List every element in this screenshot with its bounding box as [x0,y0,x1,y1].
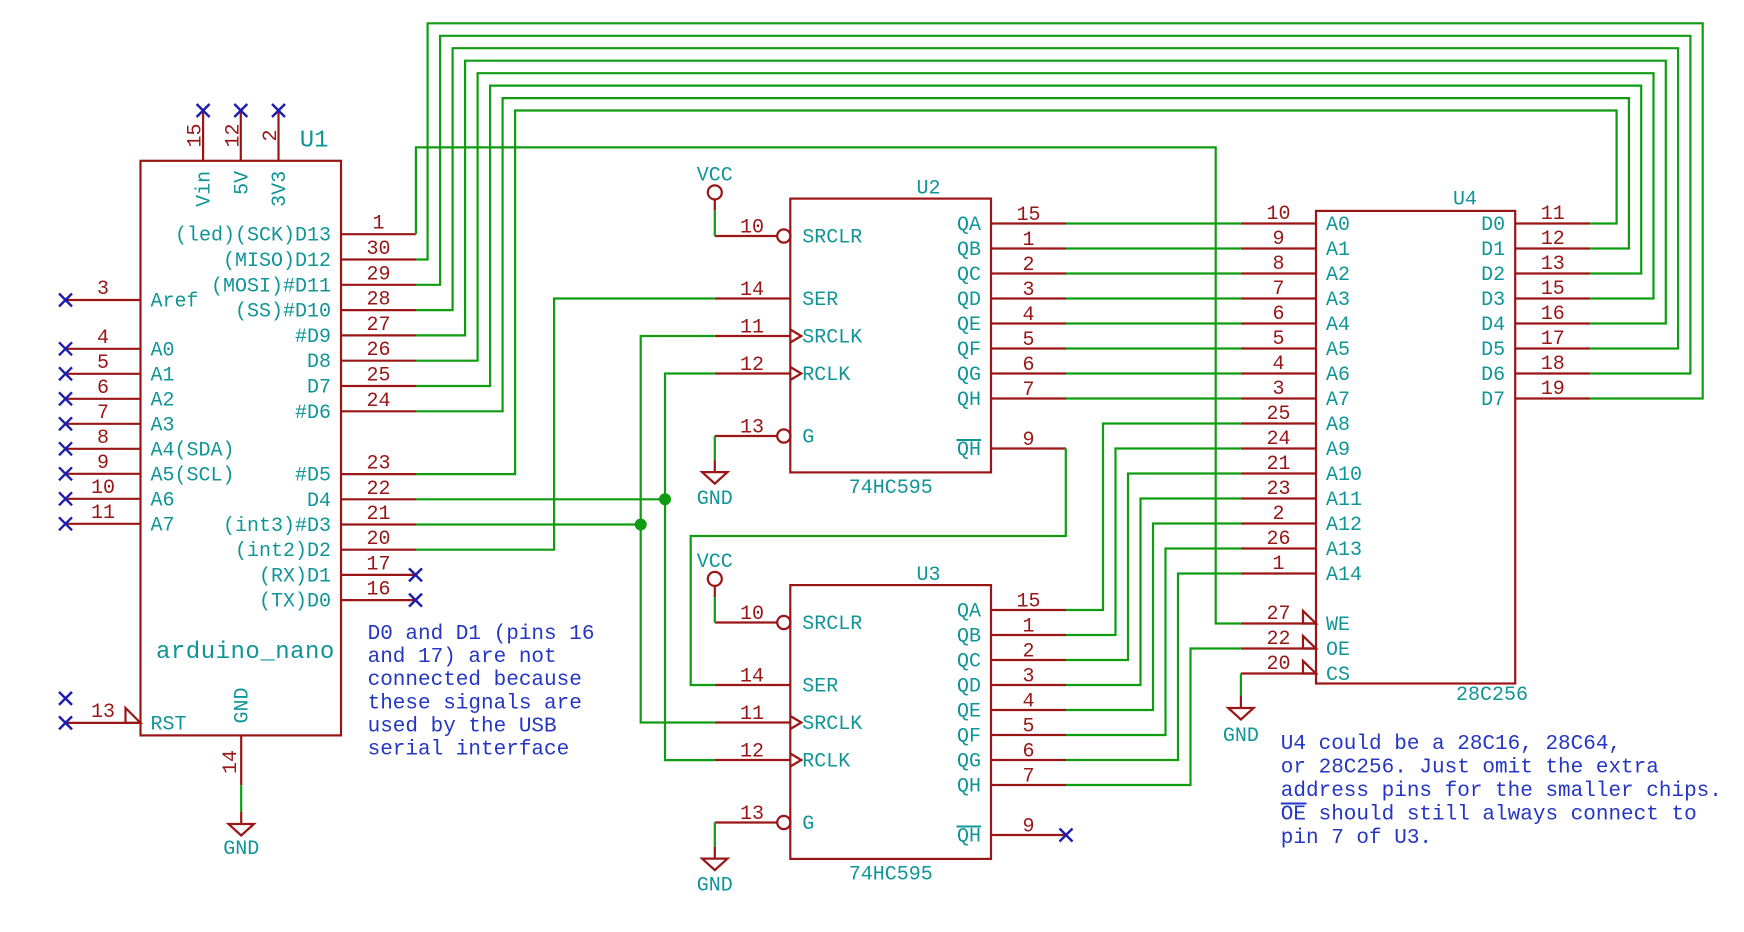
svg-text:(SS)#D10: (SS)#D10 [235,301,331,324]
U4 pin 25 A8 [1241,403,1350,437]
U1 pin 8 A4(SDA) [66,427,235,463]
IC U1 arduino_nano body [141,161,342,736]
svg-text:9: 9 [1022,429,1034,452]
svg-text:2: 2 [1022,641,1034,664]
no-connect X A0 [59,342,72,355]
svg-text:D6: D6 [1481,364,1505,387]
svg-text:24: 24 [1266,428,1290,451]
svg-text:8: 8 [1272,253,1284,276]
U1 pin 15 Vin [185,112,217,207]
svg-text:D0: D0 [1481,214,1505,237]
svg-text:QH: QH [957,439,981,462]
svg-text:10: 10 [740,217,764,240]
no-connect X D1 [409,568,422,581]
reference U3 [916,564,940,587]
svg-text:15: 15 [1016,591,1040,614]
wire U3.G to ground [714,823,716,847]
svg-text:7: 7 [1022,379,1034,402]
U2 pin 15 QA [957,204,1066,237]
wire U1.D11 to U4.D6 [416,36,1690,374]
no-connect X D0 [409,594,422,607]
svg-text:QB: QB [957,626,981,649]
svg-text:27: 27 [366,314,390,337]
wire U1.GND to ground [240,785,242,812]
wire U2.QF to U4.A5 [1066,347,1241,349]
svg-text:24: 24 [366,390,390,413]
svg-text:D4: D4 [307,490,331,513]
reference U4 [1453,189,1477,212]
svg-text:D7: D7 [1481,389,1505,412]
U4 pin 2 A12 [1241,503,1362,537]
svg-text:VCC: VCC [697,165,733,188]
svg-text:(MOSI)#D11: (MOSI)#D11 [211,275,331,298]
svg-text:D0 and D1 (pins 16: D0 and D1 (pins 16 [368,623,595,646]
svg-text:7: 7 [1272,278,1284,301]
no-connect X Aref [59,294,72,307]
U4 pin 10 A0 [1241,203,1350,237]
svg-text:5: 5 [1022,329,1034,352]
value 28C256 [1456,684,1528,707]
U1 pin 24 #D6 [295,390,416,425]
U1 pin 25 D7 [307,365,416,400]
svg-text:SRCLR: SRCLR [802,613,862,636]
svg-text:28C256: 28C256 [1456,684,1528,707]
svg-text:serial interface: serial interface [368,739,570,762]
svg-text:(MISO)D12: (MISO)D12 [223,250,331,273]
svg-text:GND: GND [697,875,733,898]
svg-text:3: 3 [1272,378,1284,401]
U1 pin 2 3V3 [260,112,292,207]
svg-text:2: 2 [1022,254,1034,277]
svg-text:U4 could be a 28C16, 28C64,: U4 could be a 28C16, 28C64, [1281,733,1621,756]
wire U3.QD to U4.A11 [1066,499,1241,686]
no-connect X RST [59,716,72,729]
svg-text:16: 16 [1541,303,1565,326]
svg-text:6: 6 [1022,354,1034,377]
svg-text:A7: A7 [1326,389,1350,412]
wire U1.D8 to U4.D3 [416,73,1654,361]
svg-text:A4: A4 [1326,314,1350,337]
wire U1.D9 to U4.D4 [416,61,1666,336]
U1 pin 6 A2 [66,377,175,413]
svg-text:address pins for the smaller c: address pins for the smaller chips. [1281,780,1722,803]
svg-text:QF: QF [957,726,981,749]
svg-text:RCLK: RCLK [802,751,850,774]
wire U2.QE to U4.A4 [1066,322,1241,324]
U4 pin 19 D7 [1481,378,1590,412]
U2 pin 6 QG [957,354,1066,387]
U3 pin 7 QH [957,766,1066,799]
U2 pin 2 QC [957,254,1066,287]
U1 pin 26 D8 [307,339,416,374]
svg-text:22: 22 [1266,628,1290,651]
svg-text:(led)(SCK)D13: (led)(SCK)D13 [175,225,331,248]
svg-text:1: 1 [372,213,384,236]
svg-text:12: 12 [1541,228,1565,251]
wire VCC to U2.SRCLR [714,211,716,236]
svg-text:RST: RST [151,713,187,736]
wire U3.QH to U4.OE [1066,649,1241,786]
no-connect X A3 [59,417,72,430]
svg-text:13: 13 [91,701,115,724]
svg-text:20: 20 [1266,653,1290,676]
svg-text:or 28C256. Just omit the extra: or 28C256. Just omit the extra [1281,757,1659,780]
U1 pin 16 (TX)D0 [259,579,416,614]
svg-text:QH: QH [957,389,981,412]
svg-text:A10: A10 [1326,464,1362,487]
U3 pin 14 SER [715,666,839,699]
svg-text:#D6: #D6 [295,402,331,425]
U4 pin 5 A5 [1241,328,1350,362]
svg-text:VCC: VCC [697,551,733,574]
svg-text:9: 9 [1022,816,1034,839]
U1 pin 17 (RX)D1 [259,553,416,588]
svg-text:10: 10 [91,477,115,500]
svg-text:connected because: connected because [368,669,582,692]
svg-text:14: 14 [740,279,764,302]
U4 pin 20 CS [1241,653,1350,687]
U1 pin 4 A0 [66,327,175,363]
svg-text:QA: QA [957,601,981,624]
U3 pin 15 QA [957,591,1066,624]
svg-text:4: 4 [1022,304,1034,327]
U4 pin 15 D3 [1481,278,1590,312]
svg-text:3: 3 [1022,666,1034,689]
wire U2.QD to U4.A3 [1066,297,1241,299]
wire U1.D10 to U4.D5 [416,48,1678,348]
U2 pin 4 QE [957,304,1066,337]
svg-text:RCLK: RCLK [802,364,850,387]
svg-text:A1: A1 [1326,239,1350,262]
svg-text:OE: OE [1326,639,1350,662]
wire VCC to U3.SRCLR [714,597,716,622]
ground GND below U4.CS [1223,696,1259,748]
svg-text:A1: A1 [151,364,175,387]
svg-text:15: 15 [1016,204,1040,227]
U2 pin 11 SRCLK [715,317,863,350]
svg-text:A2: A2 [151,389,175,412]
svg-text:WE: WE [1326,614,1350,637]
U4 pin 6 A4 [1241,303,1350,337]
wire U1.D3 to SRCLK bus [416,523,641,525]
value arduino_nano [156,639,335,666]
no-connect X 5V [234,104,247,117]
svg-text:74HC595: 74HC595 [849,864,933,887]
wire U2.G to ground [714,436,716,460]
svg-text:SRCLK: SRCLK [802,713,862,736]
svg-text:A3: A3 [151,414,175,437]
svg-text:SRCLK: SRCLK [802,327,862,350]
wire RCLK bus U2.RCLK to U3.RCLK [665,374,715,761]
svg-text:CS: CS [1326,664,1350,687]
IC U4 28C256 body [1316,211,1515,684]
svg-text:U3: U3 [916,564,940,587]
svg-text:(int2)D2: (int2)D2 [235,540,331,563]
svg-text:A6: A6 [1326,364,1350,387]
svg-text:SRCLR: SRCLR [802,227,862,250]
svg-text:D8: D8 [307,351,331,374]
wire U3.QB to U4.A9 [1066,449,1241,636]
power VCC for U2 [697,165,733,211]
U2 pin 3 QD [957,279,1066,312]
U4 pin 11 D0 [1481,203,1590,237]
svg-text:10: 10 [1266,203,1290,226]
svg-text:27: 27 [1266,603,1290,626]
U3 pin 4 QE [957,691,1066,724]
wire U2.QH-bar to U3.SER cascade [691,449,1066,686]
svg-text:A0: A0 [1326,214,1350,237]
U4 pin 12 D1 [1481,228,1590,262]
wire U1.D4 to RCLK bus [416,498,665,500]
U2 pin 7 QH [957,379,1066,412]
wire U1.D7 to U4.D2 [416,86,1641,386]
svg-text:14: 14 [220,750,243,774]
U1 pin 13 RST [66,701,187,737]
svg-text:QG: QG [957,751,981,774]
wire U1.D6 to U4.D1 [416,98,1629,411]
no-connect X U3.QH-bar [1060,829,1073,842]
svg-text:17: 17 [1541,328,1565,351]
svg-text:26: 26 [1266,528,1290,551]
U2 pin 12 RCLK [715,354,851,387]
svg-text:SER: SER [802,676,838,699]
svg-text:A5: A5 [1326,339,1350,362]
svg-text:12: 12 [222,123,245,147]
reference U2 [916,178,940,201]
U2 pin 9 QH-bar [957,429,1067,462]
svg-text:12: 12 [740,741,764,764]
U1 pin 3 Aref [66,278,199,314]
note about U4 options [1281,733,1722,850]
U4 pin 21 A10 [1241,453,1362,487]
svg-text:GND: GND [1223,725,1259,748]
svg-text:11: 11 [740,703,764,726]
svg-text:12: 12 [740,354,764,377]
svg-text:A0: A0 [151,339,175,362]
svg-text:QE: QE [957,701,981,724]
U4 pin 4 A6 [1241,353,1350,387]
svg-text:9: 9 [1272,228,1284,251]
svg-text:A6: A6 [151,489,175,512]
U4 pin 3 A7 [1241,378,1350,412]
svg-text:5: 5 [97,352,109,375]
U2 pin 5 QF [957,329,1066,362]
svg-text:3V3: 3V3 [269,171,292,207]
svg-text:A4(SDA): A4(SDA) [151,439,235,462]
wire U2.QG to U4.A6 [1066,372,1241,374]
svg-text:these signals are: these signals are [368,692,582,715]
reference U1 [300,128,329,155]
svg-text:20: 20 [366,528,390,551]
wire SRCLK bus U2.SRCLK to U3.SRCLK [641,336,715,723]
U1 pin 22 D4 [307,478,416,513]
U4 pin 18 D6 [1481,353,1590,387]
svg-text:15: 15 [1541,278,1565,301]
svg-text:A5(SCL): A5(SCL) [151,464,235,487]
svg-text:30: 30 [366,238,390,261]
svg-text:A13: A13 [1326,539,1362,562]
junction D4/RCLK [659,493,671,505]
svg-text:21: 21 [366,503,390,526]
junction D3/SRCLK [635,519,647,531]
U3 pin 6 QG [957,741,1066,774]
svg-text:D4: D4 [1481,314,1505,337]
svg-text:U2: U2 [916,178,940,201]
wire U1.D12 to U4.D7 [416,23,1703,398]
svg-text:4: 4 [1272,353,1284,376]
svg-text:QH: QH [957,776,981,799]
svg-text:6: 6 [97,377,109,400]
svg-text:14: 14 [740,666,764,689]
U3 pin 10 SRCLR [715,603,863,636]
svg-text:QG: QG [957,364,981,387]
svg-text:QC: QC [957,651,981,674]
U3 pin 1 QB [957,616,1066,649]
svg-text:29: 29 [366,263,390,286]
U4 pin 22 OE [1241,628,1350,662]
wire U3.QC to U4.A10 [1066,474,1241,661]
svg-text:A9: A9 [1326,439,1350,462]
wire U2.QC to U4.A2 [1066,272,1241,274]
svg-text:10: 10 [740,603,764,626]
U1 pin 7 A3 [66,402,175,438]
U2 pin 10 SRCLR [715,217,863,250]
U4 pin 13 D2 [1481,253,1590,287]
svg-text:22: 22 [366,478,390,501]
svg-text:6: 6 [1272,303,1284,326]
svg-text:QD: QD [957,289,981,312]
svg-text:A11: A11 [1326,489,1362,512]
svg-text:4: 4 [1022,691,1034,714]
svg-text:5: 5 [1022,716,1034,739]
svg-text:QC: QC [957,264,981,287]
U1 pin 23 #D5 [295,453,416,488]
U3 pin 13 G [715,803,815,836]
svg-text:QD: QD [957,676,981,699]
U4 pin 27 WE [1241,603,1350,637]
wire U2.QH to U4.A7 [1066,397,1241,399]
U3 pin 3 QD [957,666,1066,699]
svg-text:21: 21 [1266,453,1290,476]
U4 pin 1 A14 [1241,553,1362,587]
ground GND below U2.G [697,460,733,511]
wire U3.QE to U4.A12 [1066,524,1241,711]
wire U2.QA to U4.A0 [1066,222,1241,224]
svg-text:74HC595: 74HC595 [849,477,933,500]
wire U3.QG to U4.A14 [1066,574,1241,761]
svg-text:6: 6 [1022,741,1034,764]
U3 pin 9 QH-bar [957,816,1067,849]
U2 pin 1 QB [957,229,1066,262]
svg-text:QF: QF [957,339,981,362]
U4 pin 16 D4 [1481,303,1590,337]
U4 pin 8 A2 [1241,253,1350,287]
svg-text:Aref: Aref [151,291,199,314]
svg-text:2: 2 [260,129,283,141]
svg-text:3: 3 [1022,279,1034,302]
svg-text:23: 23 [1266,478,1290,501]
svg-text:D2: D2 [1481,264,1505,287]
U2 pin 14 SER [715,279,839,312]
svg-text:#D5: #D5 [295,465,331,488]
U3 pin 2 QC [957,641,1066,674]
svg-text:Vin: Vin [194,171,217,207]
no-connect X Vin [197,104,210,117]
note about D0/D1 [368,623,595,762]
svg-text:OE should still always connect: OE should still always connect to [1281,804,1697,827]
svg-text:7: 7 [1022,766,1034,789]
svg-text:5: 5 [1272,328,1284,351]
no-connect X A6 [59,492,72,505]
svg-text:D7: D7 [307,377,331,400]
U4 pin 23 A11 [1241,478,1362,512]
svg-text:and 17) are not: and 17) are not [368,646,557,669]
no-connect X A1 [59,367,72,380]
svg-text:(TX)D0: (TX)D0 [259,591,331,614]
svg-text:1: 1 [1272,553,1284,576]
value 74HC595 of U3 [849,864,933,887]
U1 pin 1 (led)(SCK)D13 [175,213,416,248]
svg-text:18: 18 [1541,353,1565,376]
svg-text:23: 23 [366,453,390,476]
no-connect X RST2 [59,692,72,705]
svg-text:A8: A8 [1326,414,1350,437]
svg-text:26: 26 [366,339,390,362]
svg-text:13: 13 [740,417,764,440]
svg-text:#D9: #D9 [295,326,331,349]
svg-text:pin 7 of U3.: pin 7 of U3. [1281,827,1432,850]
wire U1.D5 to U4.D0 [416,111,1617,475]
svg-text:QH: QH [957,826,981,849]
U1 pin 30 (MISO)D12 [223,238,416,273]
U1 pin 10 A6 [66,477,175,513]
wire U3.QA to U4.A8 [1066,424,1241,611]
svg-text:U4: U4 [1453,189,1477,212]
U1 pin 11 A7 [66,502,175,538]
svg-text:2: 2 [1272,503,1284,526]
svg-text:5V: 5V [231,171,254,195]
svg-text:25: 25 [366,365,390,388]
svg-text:11: 11 [1541,203,1565,226]
no-connect X A5 [59,467,72,480]
svg-text:G: G [802,427,814,450]
U1 pin 29 (MOSI)#D11 [211,263,416,298]
svg-text:QB: QB [957,239,981,262]
svg-text:7: 7 [97,402,109,425]
svg-text:QE: QE [957,314,981,337]
no-connect X 3V3 [272,104,285,117]
U4 pin 9 A1 [1241,228,1350,262]
svg-text:A7: A7 [151,514,175,537]
svg-text:11: 11 [740,317,764,340]
U2 pin 13 G [715,417,815,450]
svg-text:11: 11 [91,502,115,525]
U3 pin 12 RCLK [715,741,851,774]
svg-text:13: 13 [740,803,764,826]
ground GND below U3.G [697,847,733,898]
svg-text:1: 1 [1022,616,1034,639]
U3 pin 5 QF [957,716,1066,749]
U4 pin 17 D5 [1481,328,1590,362]
svg-text:A12: A12 [1326,514,1362,537]
U1 pin 5 A1 [66,352,175,388]
value 74HC595 of U2 [849,477,933,500]
U4 pin 7 A3 [1241,278,1350,312]
U1 pin 9 A5(SCL) [66,452,235,488]
svg-text:19: 19 [1541,378,1565,401]
U1 pin 14 GND [220,687,255,785]
svg-text:28: 28 [366,289,390,312]
